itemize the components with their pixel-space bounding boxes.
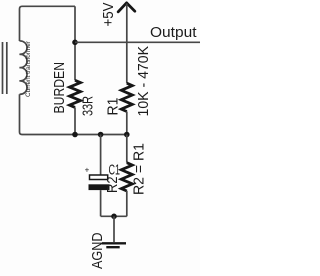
svg-text:Current transformer: Current transformer xyxy=(25,40,32,97)
wire burden top lead xyxy=(74,6,76,80)
power +5V arrow xyxy=(118,3,135,12)
node C1-rail junction xyxy=(98,132,104,138)
node ground junction xyxy=(111,214,117,220)
resistor R2 zigzag xyxy=(121,163,132,191)
inductor L1 (current transformer winding) xyxy=(20,41,28,94)
wire +5V to R1 xyxy=(126,4,128,84)
capacitor C1 positive plate xyxy=(90,175,108,180)
svg-text:33R: 33R xyxy=(81,96,97,116)
wire left lead (coil bottom) xyxy=(20,94,23,134)
wire R2 top lead xyxy=(126,135,128,163)
svg-text:R2: R2 xyxy=(104,177,121,194)
svg-text:+5V: +5V xyxy=(100,3,117,27)
wire ground rail xyxy=(101,215,127,217)
wire R1 bottom lead xyxy=(126,112,128,135)
transformer core xyxy=(3,42,7,94)
svg-text:C1: C1 xyxy=(109,163,121,179)
wire output line xyxy=(75,41,200,43)
svg-text:R2 = R1: R2 = R1 xyxy=(131,143,148,195)
wire burden bottom lead xyxy=(74,107,76,134)
svg-text:+: + xyxy=(85,166,90,175)
svg-text:BURDEN: BURDEN xyxy=(51,62,68,114)
capacitor C1 negative plate xyxy=(89,184,110,190)
wire C1 top lead xyxy=(100,135,102,176)
wire R2 bottom lead xyxy=(126,191,128,217)
node R1-R2 junction xyxy=(124,132,130,138)
wire to ground xyxy=(113,216,115,242)
wire C1 bottom lead xyxy=(100,190,102,216)
svg-text:10K - 470K: 10K - 470K xyxy=(135,46,152,117)
resistor BURDEN zigzag xyxy=(70,80,81,107)
node burden-rail junction xyxy=(72,132,78,138)
node output junction xyxy=(72,40,78,46)
wire middle rail xyxy=(22,134,127,136)
svg-text:Output: Output xyxy=(150,24,197,41)
svg-text:R1: R1 xyxy=(105,98,122,116)
svg-text:AGND: AGND xyxy=(89,232,106,269)
wire left lead (coil top) xyxy=(20,6,23,41)
ground AGND symbol xyxy=(102,243,126,247)
wire top rail xyxy=(22,5,75,7)
resistor R1 zigzag xyxy=(121,83,132,111)
